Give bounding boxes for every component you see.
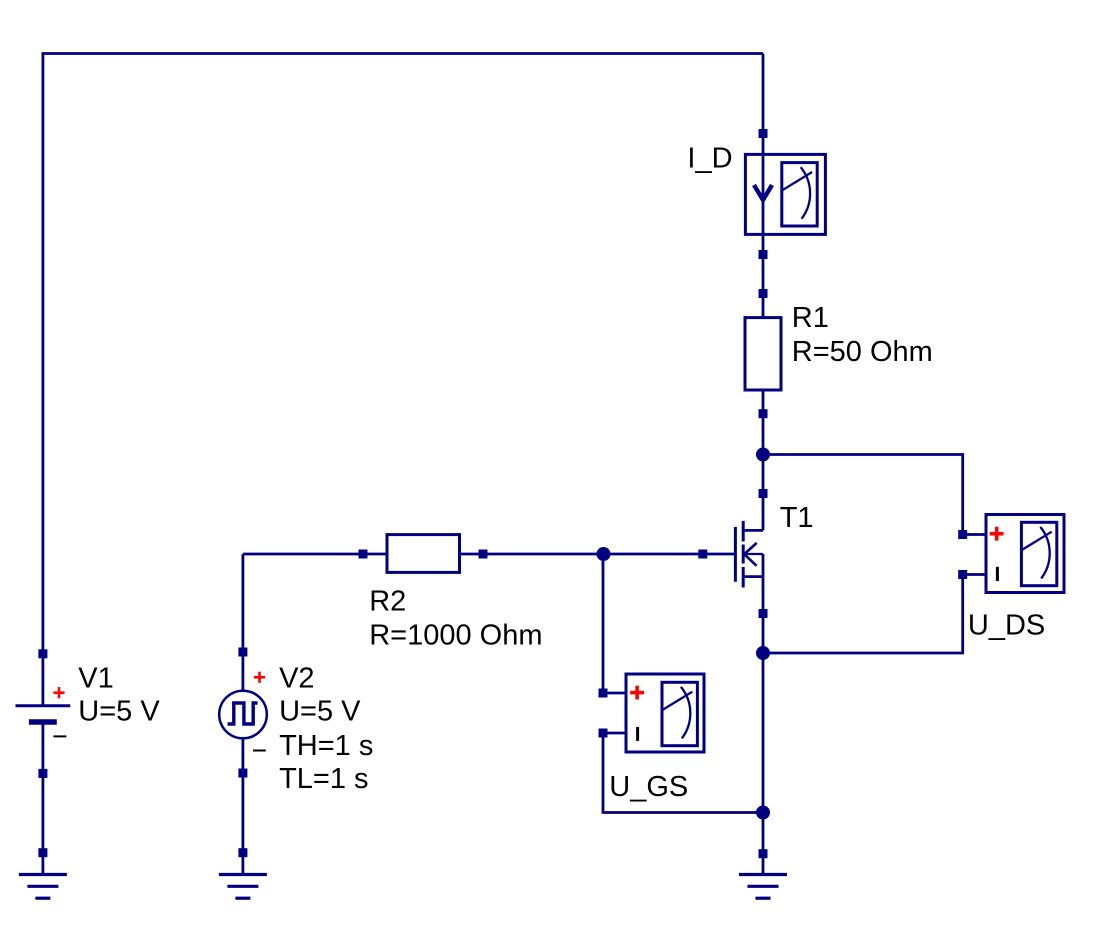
- channel segment middle: [742, 545, 745, 564]
- svg-text:TH=1 s: TH=1 s: [279, 730, 373, 762]
- ground right under source: [739, 875, 787, 899]
- V2 minus sign: [253, 750, 266, 752]
- voltage source V2 rectangle pulse: [219, 691, 267, 739]
- node T1 drain terminal: [759, 489, 768, 498]
- channel segment top: [742, 521, 745, 542]
- V2 plus sign: [254, 672, 265, 683]
- wire gate junction down to U_GS plus: [602, 554, 605, 693]
- node V1 bottom terminal: [38, 769, 47, 778]
- channel segment bottom: [742, 567, 745, 588]
- wire V2 bottom to ground: [241, 739, 244, 874]
- wire V1 bottom to ground: [42, 722, 45, 873]
- svg-text:U_DS: U_DS: [968, 610, 1045, 642]
- wire R2 to gate junction to T1 gate: [460, 553, 736, 556]
- wire left vertical into V1: [42, 52, 45, 706]
- U_DS minus sign: [996, 567, 999, 581]
- wire top horizontal V1 to drain column: [43, 52, 763, 55]
- gate bar: [734, 527, 737, 582]
- U_GS minus sign: [636, 727, 639, 741]
- node I_D bottom terminal: [759, 250, 768, 259]
- node right ground terminal: [759, 849, 768, 858]
- U_DS plus sign: [990, 527, 1004, 541]
- drain horizontal: [743, 529, 763, 532]
- wire stub U_DS minus: [963, 573, 986, 576]
- svg-text:U=5 V: U=5 V: [279, 696, 361, 728]
- svg-text:U_GS: U_GS: [609, 771, 688, 803]
- node T1 gate terminal: [698, 550, 707, 559]
- svg-text:R=1000 Ohm: R=1000 Ohm: [369, 619, 542, 651]
- svg-text:R=50 Ohm: R=50 Ohm: [792, 336, 933, 368]
- node R2 right terminal: [479, 550, 488, 559]
- node R1 top terminal: [759, 289, 768, 298]
- source horizontal: [743, 575, 763, 578]
- V1 plus sign: [53, 687, 64, 698]
- ground under V1: [19, 875, 67, 899]
- wire V2 top: [241, 554, 244, 691]
- node R1 bottom terminal: [759, 409, 768, 418]
- ammeter I_D meter face: [782, 163, 817, 226]
- wire MOSFET source down to ground: [762, 554, 765, 873]
- svg-text:I_D: I_D: [687, 143, 732, 175]
- svg-text:R1: R1: [792, 302, 829, 334]
- bulk line: [744, 553, 763, 555]
- ammeter I_D: [745, 154, 825, 234]
- svg-text:U=5 V: U=5 V: [78, 696, 160, 728]
- node U_DS plus terminal: [958, 530, 967, 539]
- bulk arrow upper arm: [744, 543, 757, 554]
- wire right vertical top through ammeter to R1: [762, 54, 765, 318]
- resistor R2: [387, 535, 460, 573]
- voltmeter U_DS meter face: [1021, 522, 1056, 585]
- node V2 bottom terminal: [238, 769, 247, 778]
- node U_GS plus terminal: [599, 689, 608, 698]
- svg-text:V1: V1: [78, 662, 113, 694]
- V1 minus sign: [53, 735, 66, 737]
- junction drain node: [756, 448, 770, 462]
- node V2 ground terminal: [238, 848, 247, 857]
- ground under V2: [219, 875, 267, 899]
- svg-text:V2: V2: [279, 662, 314, 694]
- wire stub U_DS plus: [963, 533, 986, 536]
- U_GS plus sign: [630, 686, 644, 700]
- junction source node: [756, 646, 770, 660]
- node V1 top terminal: [38, 649, 47, 658]
- voltmeter U_DS: [986, 515, 1064, 593]
- wire V2 to R2: [243, 553, 387, 556]
- svg-text:R2: R2: [369, 585, 406, 617]
- wire drain junction to U_DS plus: [763, 455, 963, 535]
- node T1 source terminal: [759, 609, 768, 618]
- node V1 ground terminal: [38, 848, 47, 857]
- wire stub U_GS minus: [603, 732, 626, 735]
- node R2 left terminal: [359, 550, 368, 559]
- wire source junction to U_DS minus: [763, 575, 963, 654]
- voltmeter U_GS meter face: [662, 682, 697, 745]
- transistor T1 MOSFET: [735, 521, 763, 588]
- voltage source V1 battery: [16, 706, 71, 722]
- svg-text:TL=1 s: TL=1 s: [279, 763, 368, 795]
- junction bottom node: [756, 806, 770, 820]
- bulk arrow lower arm: [744, 554, 756, 566]
- junction gate node: [597, 547, 611, 561]
- wire U_GS minus down and right to bottom junction: [603, 733, 763, 813]
- node U_DS minus terminal: [958, 570, 967, 579]
- node V2 top terminal: [238, 648, 247, 657]
- wire stub U_GS plus: [603, 692, 626, 695]
- node U_GS minus terminal: [599, 729, 608, 738]
- voltmeter U_GS: [626, 674, 704, 752]
- resistor R1: [745, 318, 781, 390]
- svg-text:T1: T1: [780, 502, 814, 534]
- wire R1 bottom to MOSFET drain: [762, 390, 765, 530]
- node I_D top terminal: [759, 129, 768, 138]
